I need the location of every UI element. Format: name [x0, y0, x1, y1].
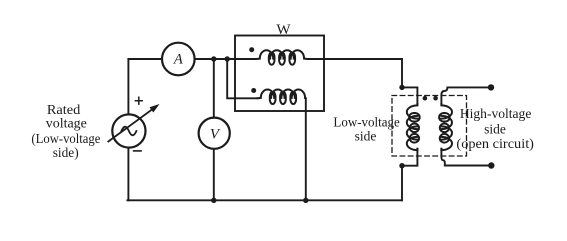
- transformer T1 high-voltage winding: [439, 104, 452, 150]
- node: junction bottom 1: [211, 198, 216, 203]
- label: low-voltage side: [333, 114, 399, 143]
- wattmeter W box: [235, 36, 324, 112]
- node: junction top 1: [211, 56, 216, 61]
- svg-text:side): side): [53, 145, 79, 160]
- node: junction top 2: [225, 56, 230, 61]
- wattmeter potential coil polarity dot: [251, 88, 256, 93]
- wattmeter current coil: [257, 50, 308, 65]
- svg-text:W: W: [276, 22, 291, 38]
- voltmeter V: [199, 118, 230, 149]
- node: junction bottom 2: [303, 198, 308, 203]
- wire: [308, 58, 403, 60]
- svg-text:Low-voltage: Low-voltage: [333, 114, 399, 129]
- ammeter A: [162, 43, 195, 76]
- node: HV open terminal bottom: [488, 162, 494, 168]
- wattmeter potential coil: [258, 89, 306, 104]
- node: transformer LV terminal top: [399, 85, 404, 90]
- wire: [402, 149, 417, 201]
- wire: [401, 59, 403, 87]
- wire: [213, 59, 215, 200]
- node: HV open terminal top: [488, 84, 494, 90]
- wire: [441, 149, 491, 166]
- transformer polarity dot right: [433, 96, 438, 101]
- wire: [441, 87, 491, 104]
- svg-text:side: side: [355, 129, 377, 144]
- wattmeter current coil polarity dot: [249, 47, 254, 52]
- node: transformer LV terminal bottom: [399, 163, 404, 168]
- wire: [128, 58, 256, 60]
- transformer polarity dot left: [423, 96, 428, 101]
- svg-text:A: A: [173, 52, 183, 68]
- wire: [227, 59, 257, 98]
- svg-text:High-voltage: High-voltage: [460, 106, 532, 121]
- svg-text:Rated: Rated: [47, 102, 81, 117]
- wire: [127, 59, 129, 200]
- transformer T1 low-voltage winding: [407, 104, 420, 150]
- wire: [402, 87, 417, 104]
- wire: [127, 199, 402, 201]
- wire: [305, 98, 307, 200]
- label: high-voltage side open circuit: [456, 106, 534, 151]
- svg-text:side: side: [484, 121, 506, 136]
- transformer enclosure (dashed): [392, 96, 467, 157]
- label: rated voltage: [31, 102, 100, 160]
- svg-text:(open circuit): (open circuit): [456, 136, 534, 151]
- ac source V1: [108, 97, 159, 151]
- svg-text:voltage: voltage: [46, 116, 87, 131]
- svg-text:(Low-voltage: (Low-voltage: [31, 131, 100, 146]
